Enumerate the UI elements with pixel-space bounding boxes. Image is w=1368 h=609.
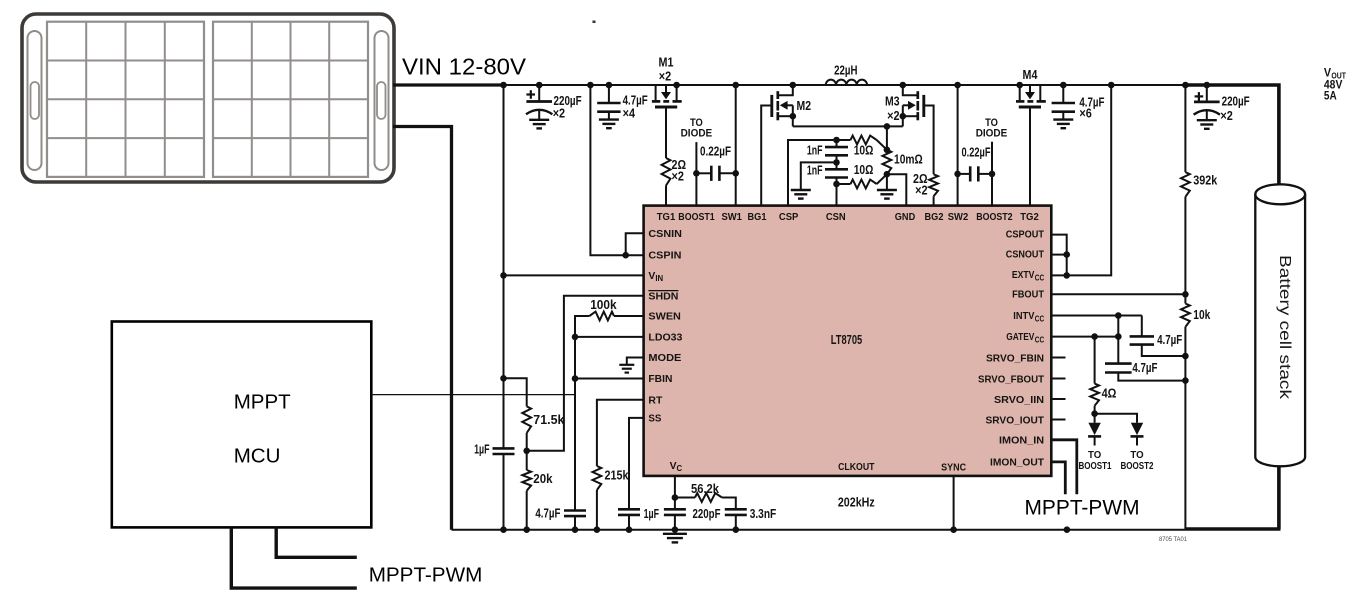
svg-text:20k: 20k — [533, 471, 553, 486]
wire INTVCC — [1051, 312, 1142, 319]
wire M3 source down — [902, 116, 904, 126]
wire INTVCC-GATEVCC tie — [1117, 316, 1119, 337]
svg-text:DIODE: DIODE — [681, 128, 713, 140]
label 392k — [1193, 172, 1218, 187]
battery cell stack — [1255, 184, 1305, 466]
MPPT MCU box — [112, 322, 372, 528]
svg-text:220pF: 220pF — [693, 506, 721, 521]
label VIN 12-80V — [402, 54, 526, 80]
svg-text:4.7µF: 4.7µF — [1132, 360, 1157, 375]
svg-text:M3: M3 — [885, 94, 900, 109]
svg-text:GATEV: GATEV — [1006, 332, 1034, 343]
wire CSPOUT tie — [1051, 235, 1066, 276]
wire 392k column — [1184, 85, 1186, 172]
ground MODE — [619, 365, 634, 373]
wire SW2 line — [954, 82, 961, 206]
op-amp U1 LT8705 body — [644, 206, 1052, 476]
label 3.3nF — [750, 506, 777, 521]
label 10ohm bottom — [854, 162, 874, 177]
svg-text:TG1: TG1 — [657, 212, 676, 223]
wire VC pin down — [672, 476, 679, 509]
svg-text:Battery cell stack: Battery cell stack — [1276, 255, 1293, 400]
svg-text:TO: TO — [1130, 450, 1143, 461]
node VIN pin tee — [500, 272, 507, 279]
pin labels left column — [648, 229, 682, 425]
node rail 1uF SS — [626, 526, 633, 533]
svg-text:INTV: INTV — [1013, 311, 1034, 322]
capacitor 0.22uF (BOOST1) — [693, 166, 739, 181]
label 2ohm x2 (TG1) — [672, 157, 687, 184]
label MCU — [234, 445, 281, 468]
wire 10k to rail — [1184, 327, 1186, 530]
wire VIN pin — [504, 274, 644, 276]
capacitor 3.3nF — [725, 509, 747, 529]
label 1nF bottom — [807, 163, 823, 178]
wire rail to CSPIN — [587, 82, 643, 256]
label TO DIODE (left) — [681, 117, 713, 140]
pin label VC — [670, 461, 683, 473]
wire CSN pin — [836, 184, 838, 206]
svg-text:×2: ×2 — [887, 108, 899, 123]
pin stubs SRVO — [1051, 358, 1065, 420]
svg-text:SRVO_FBOUT: SRVO_FBOUT — [978, 374, 1045, 385]
wire IMON_OUT stub — [1051, 462, 1065, 494]
stray mark — [593, 21, 596, 24]
inductor 22uH — [793, 80, 903, 85]
wire 1nF mid to ground — [801, 162, 837, 190]
node diodes feed — [1091, 406, 1098, 417]
svg-text:0.22µF: 0.22µF — [700, 144, 731, 159]
svg-text:1nF: 1nF — [807, 142, 823, 157]
label 220pF — [693, 506, 721, 521]
svg-text:BG2: BG2 — [925, 212, 944, 223]
svg-text:SRVO_IIN: SRVO_IIN — [994, 395, 1044, 406]
label 1uF SS — [644, 506, 659, 521]
label 215k — [605, 467, 630, 482]
svg-text:RT: RT — [648, 396, 663, 407]
svg-text:SW1: SW1 — [721, 212, 742, 223]
wire to diode 2 — [1095, 414, 1137, 423]
label 202kHz — [838, 495, 875, 510]
resistor 10k — [1181, 304, 1190, 327]
wire SW1 line — [732, 82, 739, 206]
wire 10mohm to GND pin — [887, 174, 906, 206]
label 4.7uF INTVCC — [1157, 332, 1182, 347]
svg-text:SYNC: SYNC — [941, 463, 966, 474]
pin labels right column — [978, 230, 1045, 469]
label 71.5k — [533, 412, 565, 427]
resistor 2ohm x2 (TG1) — [662, 158, 671, 186]
svg-text:M4: M4 — [1023, 67, 1039, 82]
svg-text:CC: CC — [1035, 273, 1045, 282]
svg-text:SRVO_IOUT: SRVO_IOUT — [986, 415, 1045, 426]
svg-text:TO: TO — [1088, 450, 1101, 461]
svg-text:BOOST1: BOOST1 — [1078, 461, 1111, 472]
transistor M3 x2 — [900, 82, 924, 121]
wire GATEVCC to 4ohm — [1094, 337, 1096, 384]
wire SS pin — [629, 418, 644, 509]
wire 71.5k to 20k — [523, 433, 530, 470]
resistor 10ohm bottom — [837, 174, 887, 188]
svg-text:×2: ×2 — [1220, 108, 1232, 123]
node rail 1uF — [500, 526, 507, 533]
node rail 4.7uF — [572, 526, 579, 533]
svg-text:EXTV: EXTV — [1012, 270, 1035, 281]
label 0.22uF (left) — [700, 144, 731, 159]
svg-text:BOOST2: BOOST2 — [1120, 461, 1153, 472]
svg-text:BOOST1: BOOST1 — [678, 212, 715, 223]
node rail 215k — [594, 526, 601, 533]
svg-text:CSN: CSN — [826, 212, 846, 223]
capacitor 220uF x2 input — [526, 82, 552, 129]
node CSP filter — [833, 137, 840, 144]
svg-text:392k: 392k — [1193, 172, 1218, 187]
resistor 71.5k — [522, 406, 531, 433]
ground VC rail — [663, 534, 687, 543]
resistor 4ohm — [1090, 384, 1099, 406]
svg-text:4.7µF: 4.7µF — [1157, 332, 1182, 347]
ground below 1nF — [791, 190, 811, 199]
wire VIN column — [503, 85, 505, 448]
svg-text:FBIN: FBIN — [648, 374, 672, 385]
svg-text:71.5k: 71.5k — [533, 412, 565, 427]
label 4.7uF GATEVCC — [1132, 360, 1157, 375]
capacitor 220uF x2 output — [1194, 82, 1220, 129]
wire CSNIN tie — [622, 233, 643, 258]
svg-text:4.7µF: 4.7µF — [535, 506, 560, 521]
wire CSP pin up — [788, 140, 837, 206]
node VIN rail / panel — [500, 82, 507, 89]
svg-text:LDO33: LDO33 — [648, 333, 682, 344]
wire 392k to FBOUT — [1184, 197, 1186, 304]
svg-text:BG1: BG1 — [748, 212, 767, 223]
wire MPPT to FBIN — [371, 394, 575, 396]
label 4.7uF x4 — [623, 93, 648, 121]
svg-text:CSNOUT: CSNOUT — [1006, 249, 1045, 260]
svg-text:TG2: TG2 — [1020, 212, 1039, 223]
svg-text:GND: GND — [895, 212, 916, 223]
svg-text:SRVO_FBIN: SRVO_FBIN — [986, 353, 1044, 364]
svg-text:SW2: SW2 — [948, 212, 969, 223]
label 0.22uF (right) — [962, 144, 991, 159]
svg-text:×2: ×2 — [659, 69, 671, 84]
label 220uF x2 output — [1220, 94, 1249, 123]
wire MODE to ground — [627, 358, 644, 365]
wire VIN rail — [504, 84, 1186, 86]
node rail PWM — [1064, 526, 1071, 533]
wire 2ohm to BG2 pin — [933, 196, 935, 206]
label 10k — [1193, 307, 1211, 322]
label M4 — [1023, 67, 1039, 82]
label 4.7uF LDO33 — [535, 506, 560, 521]
resistor 215k — [593, 466, 602, 490]
node 1nF midpoint — [833, 159, 840, 166]
svg-text:10Ω: 10Ω — [854, 142, 874, 157]
pin label CLKOUT — [838, 462, 875, 473]
wire ground rail — [452, 529, 1186, 531]
node FB rail — [1182, 82, 1189, 89]
wire FBOUT — [1051, 291, 1188, 298]
svg-text:×6: ×6 — [1079, 106, 1091, 121]
label M3 x2 — [885, 94, 900, 123]
svg-text:CSP: CSP — [779, 212, 799, 223]
capacitor 220pF — [664, 509, 686, 529]
wire BOOST1 pin — [695, 173, 697, 206]
svg-text:5A: 5A — [1324, 88, 1337, 102]
transistor M4 — [1016, 82, 1046, 107]
transistor M2 — [772, 82, 796, 121]
label LT8705 — [831, 332, 862, 347]
svg-text:10k: 10k — [1193, 307, 1211, 322]
svg-text:CSPIN: CSPIN — [648, 251, 681, 262]
label 10mohm — [894, 152, 923, 167]
label 20k — [533, 471, 553, 486]
wire 2ohm to TG1 pin — [665, 186, 667, 207]
svg-text:1µF: 1µF — [644, 506, 659, 521]
label TO DIODE (right) — [976, 117, 1008, 140]
label TO BOOST2 — [1120, 450, 1153, 472]
svg-text:×2: ×2 — [915, 183, 927, 198]
label 4.7uF x6 — [1079, 95, 1104, 121]
svg-text:VIN 12-80V: VIN 12-80V — [402, 54, 526, 80]
label M1 x2 — [659, 55, 674, 84]
label 100k — [590, 297, 617, 312]
wire LDO33 column — [574, 337, 576, 511]
wire SYNC pin down — [953, 476, 955, 530]
pin labels top row — [657, 212, 1039, 223]
wire CSNOUT — [1051, 251, 1070, 258]
resistor 392k — [1181, 172, 1190, 197]
wire down to 10mohm — [886, 126, 888, 149]
svg-text:MPPT-PWM: MPPT-PWM — [369, 563, 483, 586]
label MPPT — [234, 391, 291, 414]
wire 20k to rail — [526, 491, 528, 530]
wire FBIN pin — [575, 378, 644, 380]
svg-text:CSNIN: CSNIN — [648, 229, 682, 240]
wire MPPT PWM stub 2 — [276, 527, 357, 557]
svg-text:CSPOUT: CSPOUT — [1006, 230, 1045, 241]
diode to BOOST1 — [1088, 414, 1101, 446]
label VOUT 48V 5A — [1324, 66, 1347, 103]
wire panel- down to ground rail — [393, 127, 452, 530]
wire TO DIODE stub (right) — [991, 142, 993, 174]
svg-text:MPPT: MPPT — [234, 391, 291, 414]
wire LDO33 pin — [572, 334, 644, 341]
svg-text:10mΩ: 10mΩ — [894, 152, 923, 167]
svg-text:220µF: 220µF — [1222, 94, 1250, 109]
svg-text:CC: CC — [1035, 336, 1045, 345]
resistor 10ohm top — [837, 136, 887, 150]
svg-text:MCU: MCU — [234, 445, 281, 468]
svg-text:56.2k: 56.2k — [691, 481, 720, 496]
wire M3 gate to 2ohm — [924, 106, 934, 175]
wire MPPT PWM stub 1 — [231, 527, 356, 588]
label MPPT-PWM bottom left — [369, 563, 483, 586]
transistor M1 x2 — [652, 82, 682, 107]
label 4ohm — [1102, 386, 1117, 401]
wire TO DIODE stub (left) — [695, 142, 697, 173]
svg-text:10Ω: 10Ω — [854, 162, 874, 177]
capacitor 1nF top — [825, 140, 848, 162]
svg-text:4Ω: 4Ω — [1102, 386, 1117, 401]
svg-text:FBOUT: FBOUT — [1012, 289, 1044, 300]
node EXTVCC rail — [1108, 82, 1115, 89]
resistor 100k SWEN — [575, 312, 644, 337]
svg-text:SWEN: SWEN — [648, 312, 681, 323]
svg-text:IMON_OUT: IMON_OUT — [990, 457, 1045, 468]
svg-text:LT8705: LT8705 — [831, 332, 862, 347]
label TO BOOST1 — [1078, 450, 1111, 472]
capacitor 4.7uF GATEVCC — [1105, 337, 1189, 384]
wire EXTVCC to VOUT — [1051, 85, 1111, 279]
capacitor 0.22uF (BOOST2) — [954, 166, 995, 181]
capacitor 1uF VIN — [493, 448, 515, 529]
node rail 3.3nF — [733, 526, 740, 533]
resistor 20k — [522, 470, 531, 491]
wire to 71.5k — [504, 378, 527, 406]
resistor 2ohm x2 (BG2) — [929, 174, 938, 196]
svg-text:×2: ×2 — [553, 106, 565, 121]
ground below 10mohm — [877, 190, 897, 199]
pin label SYNC — [941, 463, 966, 474]
wire VOUT thick rail to battery — [1185, 85, 1279, 186]
svg-text:DIODE: DIODE — [976, 128, 1008, 140]
resistor 56.2k — [675, 493, 736, 509]
label 1nF top — [807, 142, 823, 157]
capacitor 4.7uF LDO33 — [564, 511, 586, 530]
label 8705 TA01 — [1159, 536, 1187, 543]
svg-text:100k: 100k — [590, 297, 617, 312]
label 10ohm top — [854, 142, 874, 157]
wire battery return — [1185, 463, 1280, 529]
svg-text:×2: ×2 — [672, 169, 684, 184]
wire M4 gate to TG2 pin — [1029, 107, 1031, 206]
label 1uF VIN — [474, 442, 489, 457]
wire BOOST2 pin — [991, 174, 993, 206]
svg-text:1µF: 1µF — [474, 442, 489, 457]
label 2ohm x2 (BG2) — [913, 171, 928, 198]
capacitor 1nF bottom — [825, 162, 848, 184]
svg-text:M1: M1 — [659, 55, 674, 70]
capacitor 4.7uF x6 output — [1052, 82, 1075, 129]
node 10mohm top feed — [884, 123, 891, 130]
svg-text:CLKOUT: CLKOUT — [838, 462, 875, 473]
node FBIN tee — [572, 375, 579, 382]
solar panel — [22, 14, 394, 182]
svg-text:×4: ×4 — [623, 106, 636, 121]
svg-text:215k: 215k — [605, 467, 630, 482]
label M2 — [797, 98, 812, 113]
svg-text:BOOST2: BOOST2 — [976, 212, 1013, 223]
node rail 20k — [523, 526, 530, 533]
svg-text:1nF: 1nF — [807, 163, 823, 178]
wire M2 source down — [792, 116, 794, 126]
wire panel+ to VIN rail — [393, 83, 505, 86]
svg-text:SHDN: SHDN — [648, 291, 678, 302]
capacitor 1uF SS — [618, 509, 640, 529]
label 22uH — [834, 63, 857, 78]
wire RT pin — [597, 400, 644, 466]
wire M2/M3 source link — [793, 125, 903, 127]
node CSN filter — [833, 181, 840, 188]
svg-text:SS: SS — [648, 414, 661, 425]
wire 10mohm to ground — [886, 174, 888, 190]
svg-text:3.3nF: 3.3nF — [750, 506, 777, 521]
wire M1 gate to 2ohm — [665, 107, 667, 158]
svg-text:CC: CC — [1035, 315, 1045, 324]
capacitor 4.7uF INTVCC — [1130, 316, 1189, 360]
label 220uF x2 — [553, 93, 582, 121]
svg-text:202kHz: 202kHz — [838, 495, 875, 510]
label MPPT-PWM right — [1025, 497, 1140, 520]
svg-text:IMON_IN: IMON_IN — [999, 436, 1044, 447]
wire GATEVCC — [1051, 333, 1121, 340]
svg-text:22µH: 22µH — [834, 63, 857, 78]
svg-text:MODE: MODE — [648, 353, 681, 364]
label 56.2k — [691, 481, 720, 496]
wire divider to SHDN — [527, 296, 644, 451]
node rail VC — [672, 526, 679, 533]
svg-text:0.22µF: 0.22µF — [962, 144, 991, 159]
wire IMON_IN stub — [1051, 440, 1077, 494]
node rail SYNC — [950, 526, 957, 533]
svg-text:MPPT-PWM: MPPT-PWM — [1025, 497, 1140, 520]
wire 215k to rail — [596, 490, 598, 530]
wire M2 gate to BG1 — [761, 106, 772, 207]
capacitor 4.7uF x4 input — [597, 82, 620, 129]
svg-text:8705 TA01: 8705 TA01 — [1159, 536, 1187, 543]
node FBIN divider tee — [500, 375, 507, 382]
diode to BOOST2 — [1131, 423, 1144, 446]
svg-text:M2: M2 — [797, 98, 812, 113]
resistor 10mohm — [883, 147, 892, 178]
